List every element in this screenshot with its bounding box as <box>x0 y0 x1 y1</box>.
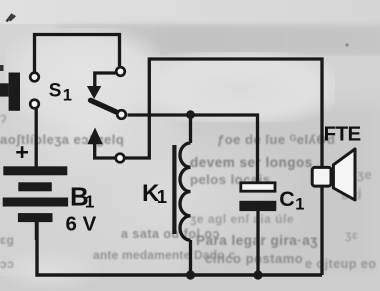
svg-text:6 V: 6 V <box>66 213 97 236</box>
svg-text:+: + <box>15 139 29 165</box>
svg-text:1: 1 <box>295 196 304 214</box>
svg-text:1: 1 <box>63 87 72 105</box>
svg-text:1: 1 <box>85 192 95 212</box>
svg-text:FTE: FTE <box>324 123 361 146</box>
svg-text:S: S <box>49 80 62 101</box>
svg-text:1: 1 <box>157 186 167 207</box>
svg-text:C: C <box>279 187 295 211</box>
